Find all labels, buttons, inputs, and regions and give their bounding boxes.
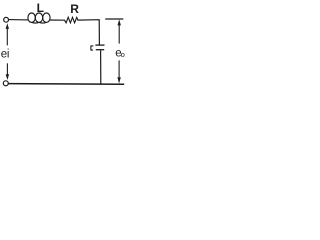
svg-text:o: o [121,50,125,59]
eo voltage arrow lower segment (arrowhead down) [117,60,120,83]
inductor L (three loops) [28,13,50,23]
capacitor C top plate [95,44,104,46]
svg-text:L: L [37,1,44,15]
input terminal circle (top left) [4,17,9,22]
label C [91,46,93,50]
bottom wire (bus) [8,83,124,86]
wire: inductor to resistor [50,19,66,21]
ei voltage arrow upper segment (arrowhead up) [6,23,9,45]
ei voltage arrow lower segment (arrowhead down) [6,63,9,80]
eo output top tick [105,18,123,20]
svg-text:ei: ei [1,49,10,61]
wire: top-left terminal to inductor [9,19,29,21]
wire: resistor to top-right corner, then down to capacitor [77,20,99,45]
capacitor C bottom plate [96,49,104,51]
eo voltage arrow upper segment (arrowhead up) [118,19,121,43]
resistor R (zigzag) [65,17,79,23]
wire: capacitor to bottom bus [100,50,102,84]
input terminal circle (bottom left) [3,81,8,86]
svg-text:R: R [70,2,79,16]
